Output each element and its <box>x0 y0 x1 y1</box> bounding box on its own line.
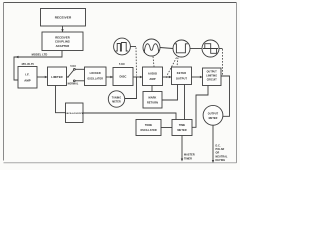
output meter M2 <box>203 105 223 125</box>
tone oscillator box <box>136 120 161 136</box>
node junction audio/keyed <box>166 76 168 78</box>
svg-text:MARK: MARK <box>149 96 157 99</box>
svg-text:D.C.: D.C. <box>216 144 221 147</box>
svg-text:NORMAL: NORMAL <box>68 83 79 86</box>
wire scope3 to scope4 <box>190 48 202 50</box>
dashed leader scope1 to junction <box>135 48 138 76</box>
svg-text:POLAR: POLAR <box>216 148 225 151</box>
mark return box <box>143 92 162 109</box>
locked oscillator box <box>85 67 107 86</box>
wire output limiting to output meter bracket <box>221 76 230 116</box>
border frame <box>4 2 237 4</box>
wire keyed output to output limiting circuit <box>192 76 203 78</box>
scope circle 4 <box>202 40 219 57</box>
dashed leader scope3 to keyed output <box>177 58 178 67</box>
svg-text:LIMITER: LIMITER <box>51 75 62 79</box>
svg-text:OSCILLOSCOPE: OSCILLOSCOPE <box>65 113 84 115</box>
svg-text:TIME: TIME <box>179 124 186 127</box>
scope circle 2 <box>143 39 160 56</box>
wire limiter to oscilloscope <box>56 86 66 113</box>
wire time meter down arrow <box>181 136 183 161</box>
receiver box <box>41 9 86 27</box>
svg-text:OUTPUT: OUTPUT <box>207 72 218 74</box>
wire keyed output to time meter <box>184 85 186 120</box>
svg-text:KEYING: KEYING <box>216 159 226 162</box>
svg-text:COUPLING: COUPLING <box>55 40 70 44</box>
dashed leader scope2 to audio amp <box>153 57 154 67</box>
svg-text:RETURN: RETURN <box>147 101 158 104</box>
wire adapter to i.f. amp <box>14 51 62 81</box>
wire keyed output to mark return <box>162 85 178 101</box>
svg-text:OUTPUT: OUTPUT <box>176 77 188 81</box>
wire scope1 stub <box>130 46 136 48</box>
dashed leader scope4 to output wire <box>222 49 224 75</box>
svg-text:TIMER: TIMER <box>184 157 192 160</box>
svg-text:OSCILLATOR: OSCILLATOR <box>140 129 156 132</box>
waveform sine pattern 2 <box>144 44 158 53</box>
oscilloscope box <box>66 103 84 123</box>
wire scope4 stub <box>219 48 223 50</box>
dashed leader scope3 to junction <box>167 58 177 76</box>
output limiting circuit box <box>203 68 222 86</box>
wire output limiting bottom to time meter <box>192 86 208 128</box>
svg-text:OSCILLATOR: OSCILLATOR <box>87 78 103 81</box>
svg-text:OR: OR <box>216 152 220 155</box>
switch contact NORMAL <box>73 80 75 82</box>
svg-text:AMP: AMP <box>149 77 155 81</box>
wire contact to locked oscillator bottom <box>75 80 84 82</box>
svg-text:RECEIVER: RECEIVER <box>55 35 70 39</box>
switch S1 arm <box>68 70 74 77</box>
svg-text:LOCKED: LOCKED <box>90 72 101 75</box>
wire contact to locked oscillator top <box>75 68 84 70</box>
svg-text:MASTER: MASTER <box>184 154 195 157</box>
waveform pulse pattern 1 <box>116 43 128 52</box>
wire scope2 to scope3 <box>160 48 173 49</box>
wire limiter to switch pole <box>67 76 69 78</box>
svg-text:5 KC: 5 KC <box>70 65 76 68</box>
time meter box <box>172 120 192 136</box>
scope circle 3 <box>173 40 190 57</box>
wire audio amp to mark return <box>151 86 153 92</box>
wire oscilloscope to time meter <box>83 113 176 120</box>
receiver coupling adapter box <box>42 32 83 51</box>
waveform square pattern 3 <box>174 44 188 53</box>
svg-text:I.F.: I.F. <box>25 73 29 77</box>
wire junction to tuning meter <box>125 77 137 99</box>
svg-text:AMP: AMP <box>24 79 31 83</box>
svg-text:NEUTRAL: NEUTRAL <box>216 155 229 158</box>
wire receiver to adapter <box>62 26 64 32</box>
scope circle 1 <box>114 38 131 55</box>
wire output meter down arrow <box>212 125 214 162</box>
svg-text:RECEIVER: RECEIVER <box>55 16 72 20</box>
svg-text:ADAPTER: ADAPTER <box>56 44 70 48</box>
wire audio amp to keyed output <box>163 76 172 78</box>
svg-text:METER: METER <box>112 101 121 103</box>
node junction disc/audio <box>136 76 138 78</box>
svg-text:455-45.75: 455-45.75 <box>21 62 34 66</box>
svg-text:CIRCUIT: CIRCUIT <box>207 80 218 82</box>
keyed output box <box>172 67 192 85</box>
wire disc to audio amp <box>133 76 143 78</box>
svg-text:LIMITING: LIMITING <box>206 76 217 78</box>
i.f. amp box <box>18 67 37 89</box>
limiter box <box>48 67 67 86</box>
wire i.f. amp to limiter <box>37 76 48 78</box>
svg-text:5 KC: 5 KC <box>119 63 125 66</box>
svg-text:TONE: TONE <box>145 124 153 127</box>
svg-text:OUTPUT: OUTPUT <box>208 113 219 116</box>
switch contact X-TAL <box>74 68 76 70</box>
audio amp box <box>143 67 163 86</box>
svg-text:DISC: DISC <box>119 75 126 79</box>
tuning meter M1 <box>108 91 124 107</box>
waveform keyed pattern 4 <box>203 44 218 54</box>
svg-text:METER: METER <box>177 129 186 132</box>
svg-text:AUDIO: AUDIO <box>148 72 157 76</box>
discriminator box <box>113 68 133 86</box>
svg-text:METER: METER <box>209 117 218 120</box>
svg-text:KEYED: KEYED <box>177 71 186 75</box>
wire locked oscillator to disc <box>106 76 113 78</box>
svg-text:TUNING: TUNING <box>112 97 122 99</box>
svg-text:MODEL LTD: MODEL LTD <box>32 53 48 57</box>
wire tone oscillator to time meter <box>161 127 172 129</box>
